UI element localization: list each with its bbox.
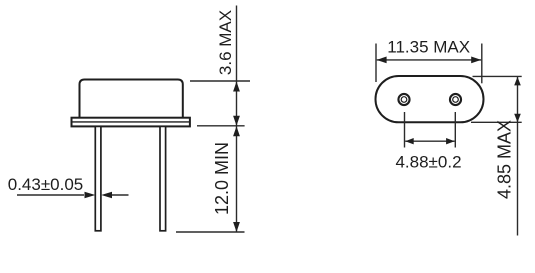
arrowhead up at can-top line (3.6 MAX top) (233, 82, 240, 92)
label 0.43±0.05 (8, 175, 84, 194)
extension line: stadium right (11.35 MAX) (481, 44, 483, 84)
arrow pointing left at lead 1 right edge (0.43 dim) (101, 192, 128, 198)
lead 1 (left pin, side view) (95, 126, 101, 230)
label 12.0 MIN (rotated) (212, 142, 232, 215)
dimension line vertical 4.85 MAX (514, 76, 521, 235)
svg-text:11.35 MAX: 11.35 MAX (387, 37, 470, 56)
extension line: pin 1 center (4.88 dim) (404, 112, 406, 148)
dimension line 11.35 MAX with outward arrowheads (377, 57, 482, 64)
extension line: stadium top right (4.85 MAX) (473, 75, 522, 77)
svg-text:0.43±0.05: 0.43±0.05 (8, 175, 84, 194)
extension line: stadium bottom right (4.85 MAX) (471, 121, 522, 123)
label 4.85 MAX (rotated) (495, 120, 515, 199)
crystal can body (side view) (80, 80, 183, 118)
pin 1 (top view) outer circle (398, 94, 409, 105)
lead 2 (right pin, side view) (160, 126, 166, 230)
svg-text:12.0 MIN: 12.0 MIN (212, 142, 232, 215)
extension line: lead bottom (176, 231, 245, 233)
dimension line 4.88 with outward arrowheads (405, 138, 454, 144)
extension line: stadium left (11.35 MAX) (375, 44, 377, 83)
label 11.35 MAX (387, 37, 470, 56)
extension line: can top (190, 80, 250, 82)
arrowhead up at flange-bottom line (12.0 MIN top) (233, 126, 240, 136)
dimension line vertical (shared by 3.6 MAX and 12.0 MIN) (236, 6, 238, 233)
pin 2 (top view) outer circle (450, 94, 461, 105)
extension line: pin 2 center (4.88 dim) (454, 112, 456, 148)
base flange (side view) (72, 118, 190, 127)
arrow pointing right at lead 1 left edge (0.43 dim) (17, 192, 95, 198)
svg-text:3.6 MAX: 3.6 MAX (216, 10, 235, 75)
label 3.6 MAX (rotated) (216, 10, 235, 75)
svg-text:4.88±0.2: 4.88±0.2 (395, 153, 461, 172)
crystal package outline (top view, stadium shape) (376, 76, 484, 122)
label 4.88±0.2 (395, 153, 461, 172)
extension line: flange bottom (197, 125, 245, 127)
svg-text:4.85 MAX: 4.85 MAX (495, 120, 515, 199)
arrowhead down at lead-bottom line (12.0 MIN bottom) (233, 222, 240, 232)
arrowhead down at flange-bottom line (3.6 MAX bottom) (233, 116, 240, 126)
